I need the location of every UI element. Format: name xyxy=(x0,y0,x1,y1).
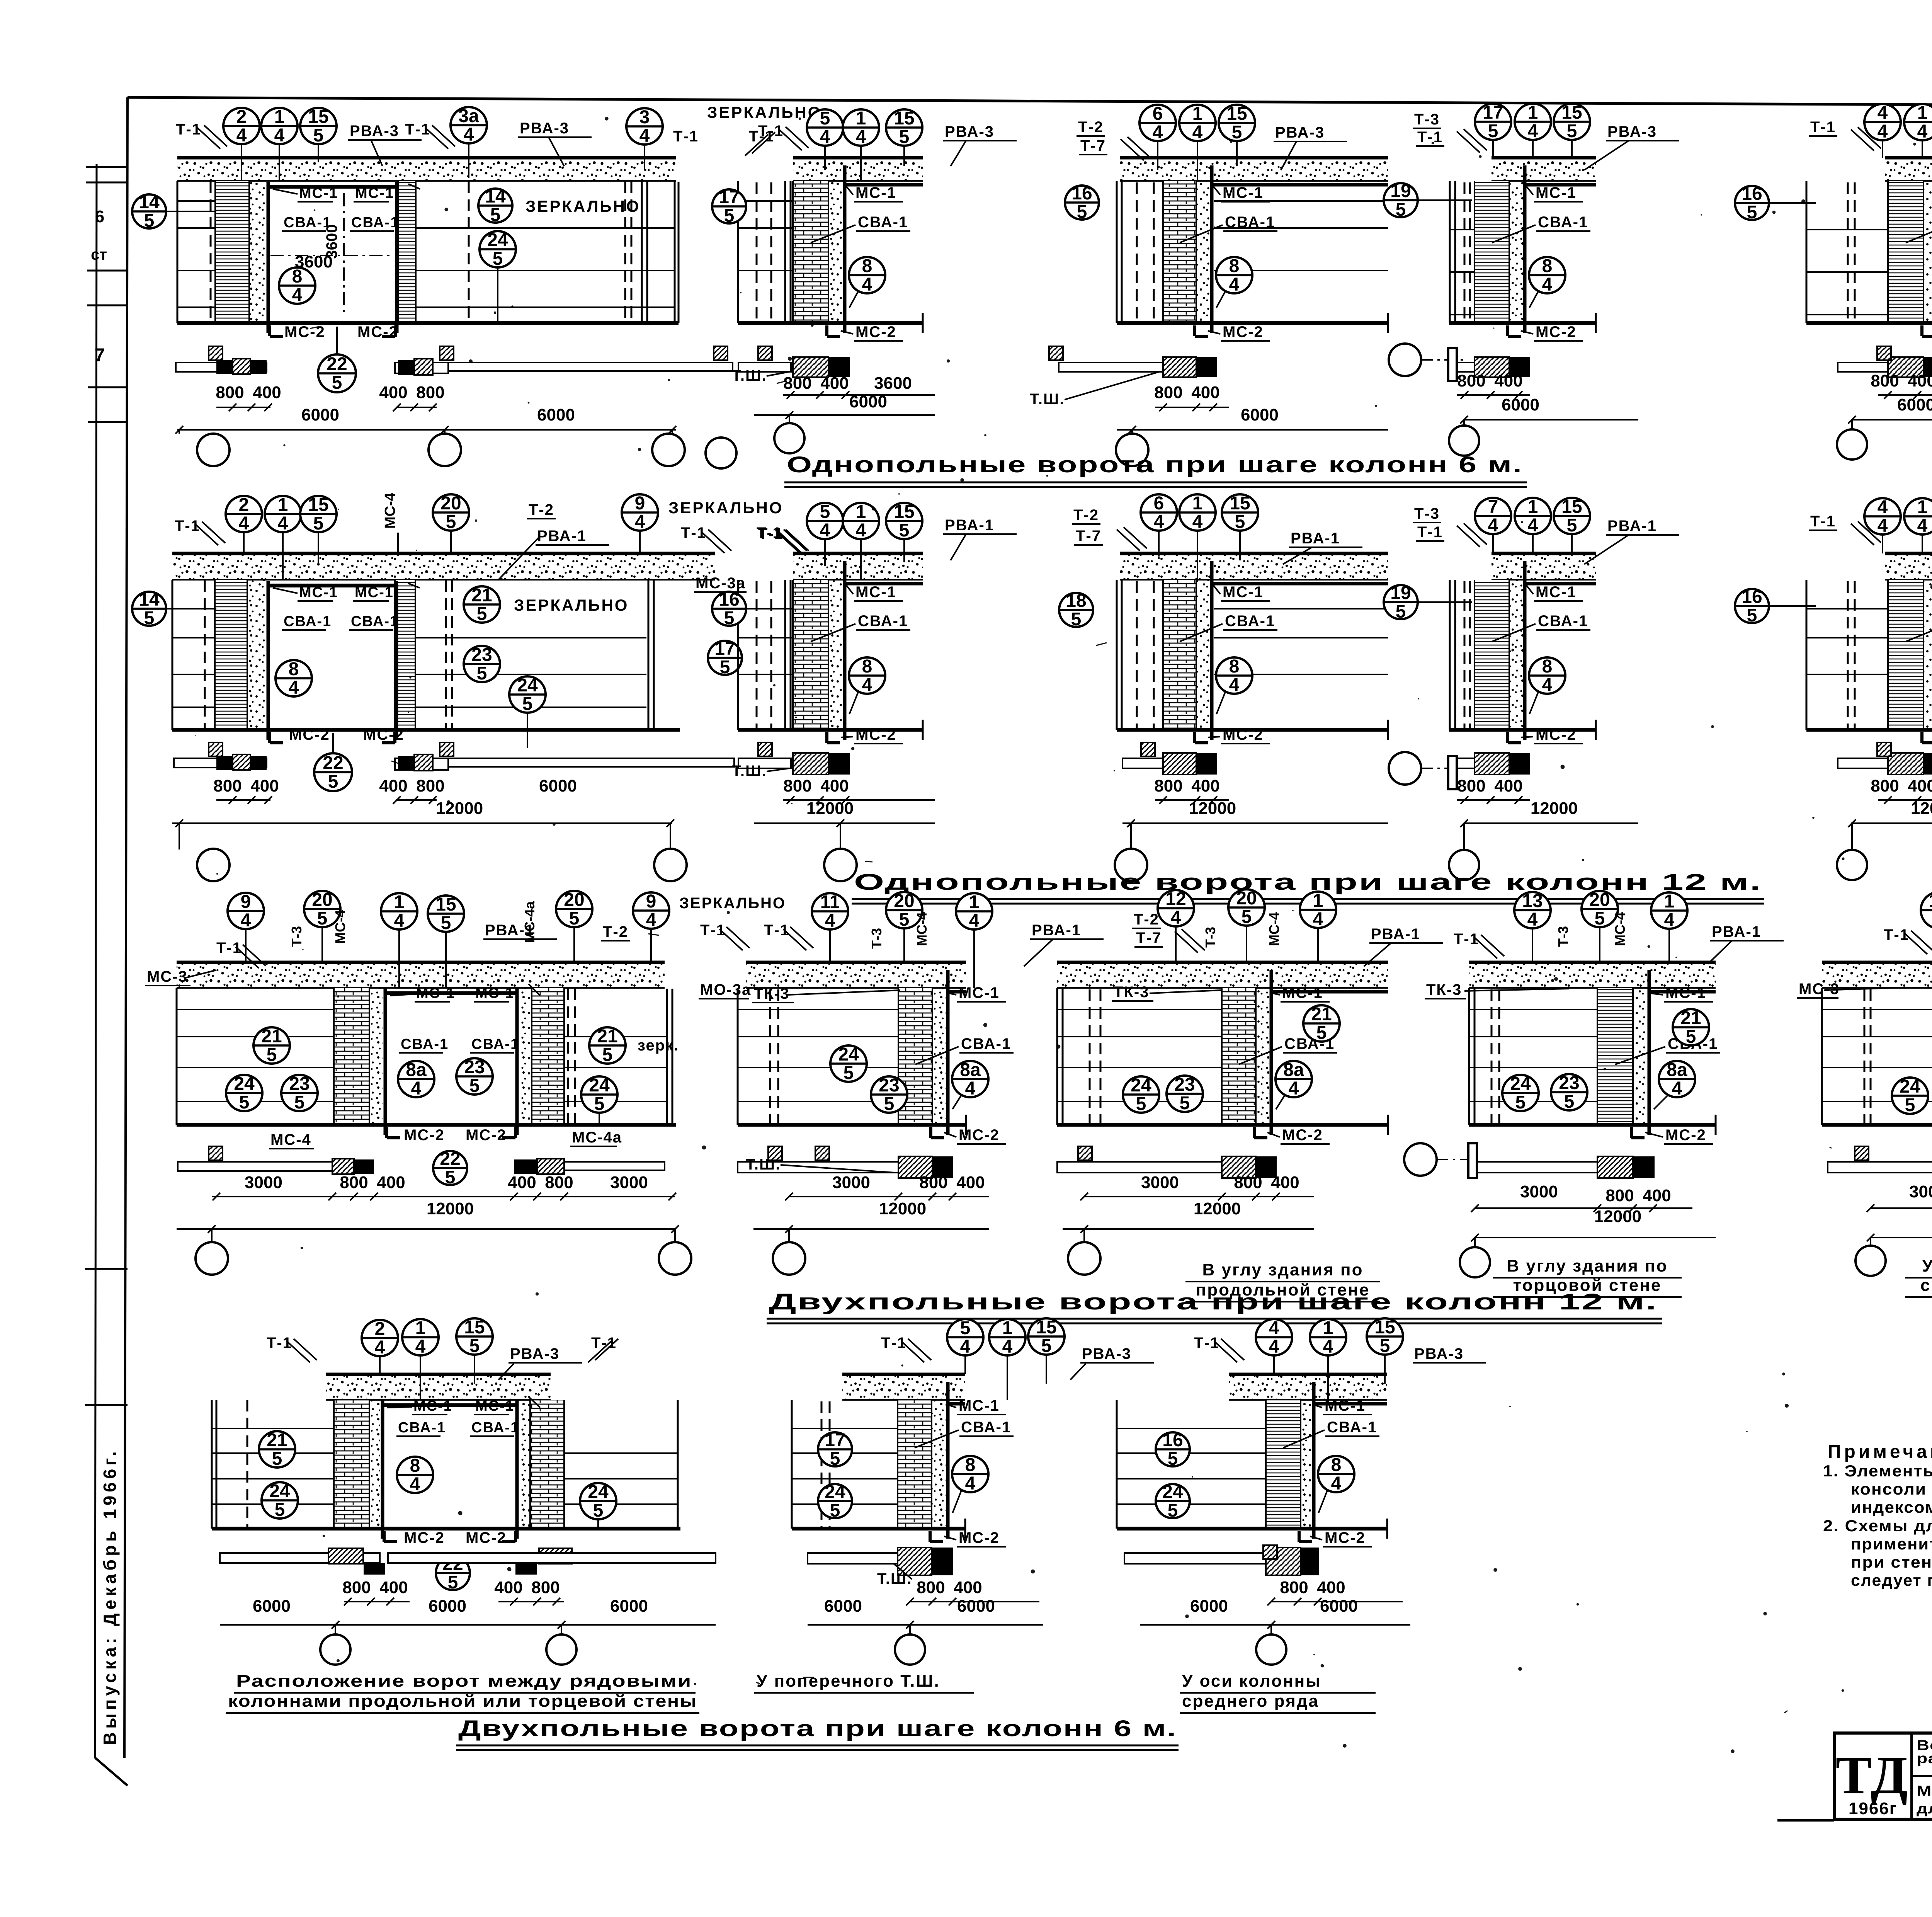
svg-text:6000: 6000 xyxy=(849,392,887,411)
callout circle 15/5 xyxy=(300,107,337,146)
R2D1 dashed joints xyxy=(204,581,206,730)
callout circle 5/4 xyxy=(947,1318,983,1357)
svg-text:6000: 6000 xyxy=(1897,395,1932,414)
stippled jamb strip xyxy=(247,580,266,730)
plan strip xyxy=(1124,1553,1266,1564)
hatched square (console mark) xyxy=(1877,346,1891,360)
axis circle xyxy=(774,423,804,453)
svg-text:5: 5 xyxy=(328,771,338,792)
svg-text:МС-2: МС-2 xyxy=(404,1529,445,1546)
callout circle 24/5 xyxy=(1156,1482,1190,1521)
plan strip xyxy=(1057,1162,1222,1173)
label Т.Ш. xyxy=(732,763,767,780)
svg-text:Т-7: Т-7 xyxy=(1080,137,1106,154)
jamb foot mark xyxy=(394,325,397,336)
svg-text:18: 18 xyxy=(1066,591,1086,611)
dimension line xyxy=(1851,822,1932,824)
wall bottom thick line xyxy=(172,728,680,732)
svg-text:6: 6 xyxy=(95,207,104,226)
hatched column strip xyxy=(793,580,828,730)
lintel over opening xyxy=(383,1403,517,1407)
svg-text:21: 21 xyxy=(471,585,492,606)
hatched column strip xyxy=(1163,181,1196,323)
callout circle 23/5 xyxy=(1167,1074,1203,1113)
svg-text:4: 4 xyxy=(965,1078,976,1099)
jamb foot mark xyxy=(268,325,271,336)
svg-text:5: 5 xyxy=(1235,512,1245,532)
svg-text:7: 7 xyxy=(95,345,105,366)
T-label leader bracket xyxy=(425,128,448,149)
svg-text:400: 400 xyxy=(1908,776,1932,795)
svg-text:МС-2: МС-2 xyxy=(357,323,398,340)
leader line xyxy=(379,1356,381,1374)
svg-text:12000: 12000 xyxy=(427,1199,474,1218)
plan strip xyxy=(738,363,791,372)
leader CBA-1 xyxy=(1492,624,1536,642)
svg-text:МО-3а: МО-3а xyxy=(700,981,751,998)
lintel line MC-1 xyxy=(948,1402,965,1406)
T-label leader bracket xyxy=(195,524,218,545)
callout circle 6/4 xyxy=(1141,493,1177,532)
wall bottom thick line xyxy=(1117,728,1388,732)
svg-text:РВА-3: РВА-3 xyxy=(1082,1345,1131,1362)
svg-text:консоли Т.К. приняты по сер: консоли Т.К. приняты по серии СТ-02-31 в… xyxy=(1851,1480,1932,1498)
wall course lines xyxy=(172,608,215,609)
svg-text:3а: 3а xyxy=(458,106,479,126)
leader MC-2 xyxy=(1521,737,1533,737)
svg-text:5: 5 xyxy=(1747,605,1757,626)
leader 8/4 xyxy=(849,691,859,714)
svg-text:ТК-3: ТК-3 xyxy=(1114,984,1149,1001)
svg-text:12000: 12000 xyxy=(436,799,483,818)
svg-text:4: 4 xyxy=(278,513,288,534)
door jamb (thick line) xyxy=(515,989,519,1135)
svg-text:Т-2: Т-2 xyxy=(603,923,628,940)
stippled jamb strip xyxy=(932,1400,946,1529)
leader line xyxy=(1492,534,1494,553)
svg-text:6000: 6000 xyxy=(301,405,339,424)
svg-text:2: 2 xyxy=(236,107,247,127)
axis circle xyxy=(197,434,230,466)
title block TD cell divider xyxy=(1910,1733,1913,1819)
leader line xyxy=(824,539,826,566)
stippled lintel band xyxy=(842,1374,965,1400)
svg-text:400: 400 xyxy=(494,1578,522,1597)
svg-text:4: 4 xyxy=(274,125,285,146)
wall edge verticals xyxy=(1116,580,1118,730)
svg-text:400: 400 xyxy=(1908,371,1932,390)
label Т-1 xyxy=(175,518,200,535)
door jamb (thick line) xyxy=(1312,1382,1316,1539)
leader MC-2 xyxy=(1521,331,1533,334)
svg-text:8а: 8а xyxy=(406,1060,427,1080)
callout circle 1/4 xyxy=(843,108,879,147)
axis drop xyxy=(1130,823,1132,849)
callout circle 8/4 xyxy=(1216,656,1252,695)
leader MC-2 xyxy=(841,737,853,737)
svg-text:14: 14 xyxy=(139,589,160,610)
label Т-2 xyxy=(1072,507,1100,524)
label МС-1 xyxy=(1534,184,1583,202)
svg-text:1: 1 xyxy=(856,502,866,522)
hatched column strip xyxy=(793,181,828,323)
dimension line xyxy=(1871,1237,1932,1238)
callout circle 8/4 xyxy=(849,656,885,695)
wall bottom thick line xyxy=(177,321,679,325)
svg-text:Т-3: Т-3 xyxy=(1202,927,1218,948)
svg-text:24: 24 xyxy=(825,1482,845,1502)
svg-text:23: 23 xyxy=(1174,1074,1195,1095)
svg-text:4: 4 xyxy=(825,911,835,931)
hatched square (console mark) xyxy=(1263,1545,1277,1559)
callout circle 24/5 xyxy=(509,675,546,714)
svg-text:9: 9 xyxy=(241,892,251,912)
axis circle xyxy=(706,438,736,468)
leader 8/4 xyxy=(849,291,859,308)
svg-text:5: 5 xyxy=(477,663,487,684)
svg-text:6000: 6000 xyxy=(429,1597,466,1616)
svg-text:15: 15 xyxy=(1230,493,1250,514)
svg-text:800: 800 xyxy=(1234,1173,1262,1192)
axis circle xyxy=(429,434,461,466)
svg-text:15: 15 xyxy=(1374,1317,1395,1338)
wall course lines xyxy=(1469,1009,1597,1010)
leader line xyxy=(903,146,905,166)
label РВА-3 xyxy=(943,123,1017,141)
svg-text:5: 5 xyxy=(441,913,451,933)
callout circle 15/5 xyxy=(1028,1317,1065,1356)
svg-text:ЗЕРКАЛЬНО: ЗЕРКАЛЬНО xyxy=(679,895,786,912)
leader xyxy=(597,1519,599,1527)
svg-text:5: 5 xyxy=(1232,122,1242,143)
svg-text:1: 1 xyxy=(1917,497,1928,518)
plan black block xyxy=(1923,357,1932,377)
callout circle 1/4 xyxy=(1300,890,1336,930)
svg-text:1: 1 xyxy=(415,1318,426,1338)
door jamb (thick line) xyxy=(395,182,399,333)
callout circle 16/5 xyxy=(1735,184,1769,223)
label СВА-1 xyxy=(856,214,910,231)
callout circle 16/5 xyxy=(1156,1430,1190,1469)
svg-text:4: 4 xyxy=(1542,675,1553,695)
svg-text:ЗЕРКАЛЬНО: ЗЕРКАЛЬНО xyxy=(526,197,640,215)
svg-text:МС-4: МС-4 xyxy=(332,910,348,944)
svg-text:МС-1: МС-1 xyxy=(1536,584,1577,601)
svg-text:МС-4а: МС-4а xyxy=(572,1129,622,1146)
label Т-1 xyxy=(216,940,242,957)
callout circle 8а/4 xyxy=(1276,1060,1312,1099)
label МС-1 xyxy=(298,185,338,202)
stippled lintel band xyxy=(177,158,676,181)
axis circle xyxy=(197,849,230,881)
svg-text:МС-2: МС-2 xyxy=(1223,323,1264,340)
axis circle xyxy=(652,434,685,466)
svg-text:МС-3: МС-3 xyxy=(147,968,188,985)
leader mc1 left xyxy=(387,1407,412,1408)
svg-text:ст: ст xyxy=(91,246,107,263)
label МС-2 xyxy=(1534,726,1583,744)
wall bottom thick line xyxy=(1057,1123,1388,1127)
svg-text:МС-2: МС-2 xyxy=(1223,726,1264,743)
svg-text:5: 5 xyxy=(593,1500,604,1521)
callout circle 22/5 xyxy=(314,753,352,792)
svg-text:15: 15 xyxy=(308,107,328,127)
wall course lines xyxy=(416,227,675,229)
svg-text:19: 19 xyxy=(1390,181,1411,201)
label СВА-1 xyxy=(959,1419,1014,1436)
label МС-3 xyxy=(1797,981,1840,998)
lintel over opening xyxy=(268,185,397,189)
dimension line xyxy=(172,822,672,824)
callout circle 24/5 xyxy=(1123,1075,1159,1114)
left edge vertical xyxy=(177,181,179,323)
callout circle 8а/4 xyxy=(398,1060,434,1099)
callout circle 8/4 xyxy=(1529,256,1565,295)
svg-text:при стенах меньшей толщины: при стенах меньшей толщины. Вместо панел… xyxy=(1851,1553,1932,1571)
svg-text:800: 800 xyxy=(1154,776,1182,795)
svg-text:МС-1: МС-1 xyxy=(959,984,1000,1001)
svg-text:5: 5 xyxy=(1567,515,1577,536)
leader 22/5 xyxy=(332,733,334,753)
axis circle xyxy=(320,1634,350,1665)
svg-text:5: 5 xyxy=(1564,1091,1575,1112)
svg-text:8: 8 xyxy=(862,656,872,677)
stippled lintel band xyxy=(1120,158,1388,181)
leader MC-1 xyxy=(1526,585,1533,594)
label Т-2 xyxy=(601,923,630,941)
stippled jamb strip xyxy=(828,181,843,323)
label МС-1 xyxy=(298,584,338,601)
svg-text:МС-4: МС-4 xyxy=(270,1131,311,1148)
svg-text:ЗЕРКАЛЬНО: ЗЕРКАЛЬНО xyxy=(668,499,783,517)
axis circle xyxy=(1837,429,1867,460)
callout circle 3а/4 xyxy=(451,106,487,145)
jamb foot mark xyxy=(1506,325,1509,336)
T.Sh leader xyxy=(767,768,789,771)
hatched column strip xyxy=(898,1400,932,1529)
axis circle xyxy=(1460,1247,1490,1277)
callout circle 5/4 xyxy=(807,502,843,541)
hatched column strip xyxy=(334,988,369,1125)
svg-text:МС-1: МС-1 xyxy=(475,985,514,1001)
leader CBA-1 xyxy=(1492,225,1536,243)
callout circle 8/4 xyxy=(276,659,312,698)
svg-text:800: 800 xyxy=(216,383,244,402)
label МС-2 xyxy=(854,726,903,744)
wall edge verticals xyxy=(1468,988,1470,1125)
stippled jamb strip xyxy=(519,988,532,1125)
svg-text:800: 800 xyxy=(545,1173,573,1192)
wall course lines xyxy=(177,1009,334,1010)
leader mc1 right xyxy=(529,984,540,996)
wall bottom thick line xyxy=(1449,728,1596,732)
leader MC-1 xyxy=(949,1405,956,1408)
R3D1 right edge verticals xyxy=(666,989,668,1125)
svg-text:У оси колонны: У оси колонны xyxy=(1182,1672,1321,1691)
callout circle 2/4 xyxy=(223,107,260,146)
svg-text:12000: 12000 xyxy=(806,799,854,818)
T-label leader bracket xyxy=(779,532,802,553)
svg-text:5: 5 xyxy=(1595,908,1605,929)
svg-text:22: 22 xyxy=(327,354,347,375)
svg-text:4: 4 xyxy=(1331,1473,1342,1494)
expansion joint dashed lines xyxy=(1847,581,1849,730)
dimension line xyxy=(220,1624,716,1626)
callout circle 15/5 xyxy=(1219,104,1255,143)
plan hatch block xyxy=(1222,1156,1256,1178)
callout circle 24/5 xyxy=(262,1481,298,1520)
callout circle 22/5 xyxy=(436,1554,470,1593)
callout circle 20/5 xyxy=(1582,890,1618,929)
svg-text:СВА-1: СВА-1 xyxy=(1327,1419,1377,1436)
svg-text:5: 5 xyxy=(272,1449,282,1469)
axis circle xyxy=(1449,850,1479,880)
svg-text:5: 5 xyxy=(602,1045,613,1065)
plan black block xyxy=(932,1156,953,1178)
svg-text:4: 4 xyxy=(239,513,249,534)
leader MC-1 xyxy=(1213,585,1220,594)
svg-text:24: 24 xyxy=(487,230,508,250)
callout circle 15/5 xyxy=(1367,1317,1403,1356)
svg-text:Т-1: Т-1 xyxy=(1810,513,1836,530)
lintel over opening xyxy=(385,991,517,995)
svg-text:5: 5 xyxy=(239,1092,250,1113)
axis circle xyxy=(1068,1242,1100,1275)
title block outer box xyxy=(1834,1733,1932,1819)
svg-text:СВА-1: СВА-1 xyxy=(471,1036,519,1052)
svg-text:21: 21 xyxy=(597,1026,617,1047)
svg-text:Т-1: Т-1 xyxy=(1810,119,1836,136)
svg-text:МС-4: МС-4 xyxy=(1612,912,1628,946)
leader xyxy=(498,537,539,580)
hatched column strip xyxy=(215,580,247,730)
svg-text:5: 5 xyxy=(1071,609,1082,630)
label Т-7 xyxy=(1134,930,1163,947)
door jamb (thick line) xyxy=(946,1382,950,1539)
door jamb (thick line) xyxy=(515,1401,519,1539)
wall course lines xyxy=(212,1428,334,1429)
label Т-1 xyxy=(267,1335,292,1352)
callout circle 8/4 xyxy=(952,1455,988,1494)
svg-text:16: 16 xyxy=(1162,1430,1183,1451)
svg-text:МС-2: МС-2 xyxy=(1536,323,1577,340)
svg-text:СВА-1: СВА-1 xyxy=(1538,613,1588,630)
svg-text:МС-2: МС-2 xyxy=(855,726,896,743)
svg-text:индексом МС см. лист 7: индексом МС см. лист 7 настоящей серии. … xyxy=(1851,1498,1932,1516)
svg-text:МС-2: МС-2 xyxy=(1536,726,1577,743)
svg-text:24: 24 xyxy=(588,1482,609,1502)
svg-text:РВА-1: РВА-1 xyxy=(1291,530,1340,547)
svg-text:5: 5 xyxy=(960,1318,971,1338)
svg-text:400: 400 xyxy=(1271,1173,1299,1192)
plan hatch block xyxy=(1475,357,1509,377)
callout circle 1/4 xyxy=(956,892,992,931)
axis circle xyxy=(1116,434,1148,466)
plan hatch block xyxy=(793,753,828,775)
callout circle 23/5 xyxy=(281,1074,318,1113)
svg-text:РВА-3: РВА-3 xyxy=(350,123,399,140)
hatched column strip xyxy=(398,181,416,323)
svg-text:8: 8 xyxy=(1331,1455,1342,1475)
svg-text:400: 400 xyxy=(956,1173,985,1192)
callout circle 21/5 xyxy=(1673,1008,1709,1047)
T-label leader bracket xyxy=(197,128,220,149)
svg-text:среднего ряда: среднего ряда xyxy=(1182,1692,1319,1711)
hatched square (console mark) xyxy=(815,1146,829,1160)
wall bottom thick line xyxy=(1117,321,1388,325)
leader 8/4 xyxy=(1216,291,1226,308)
svg-text:6000: 6000 xyxy=(1320,1597,1358,1616)
axis drop xyxy=(1463,420,1465,426)
dimension line xyxy=(783,394,935,396)
label МО-3а xyxy=(699,981,751,999)
leader line xyxy=(1236,141,1238,166)
label МС-1 xyxy=(1221,184,1270,202)
svg-text:12000: 12000 xyxy=(1189,799,1236,818)
svg-text:4: 4 xyxy=(1192,512,1203,532)
svg-text:РВА-1: РВА-1 xyxy=(1371,926,1420,943)
svg-text:5: 5 xyxy=(830,1449,840,1469)
leader line xyxy=(245,929,247,962)
dimension line xyxy=(1475,1207,1692,1209)
svg-text:4: 4 xyxy=(464,124,474,145)
leader xyxy=(1281,141,1296,170)
svg-text:МС-1: МС-1 xyxy=(959,1397,1000,1414)
svg-text:РВА-3: РВА-3 xyxy=(1275,124,1325,141)
callout circle 22/5 xyxy=(433,1149,467,1188)
hatched square (console mark) xyxy=(209,742,223,756)
hatched square (console mark) xyxy=(1877,742,1891,756)
svg-text:4: 4 xyxy=(241,910,251,931)
svg-text:5: 5 xyxy=(294,1092,305,1113)
svg-text:400: 400 xyxy=(377,1173,405,1192)
left margin tick marks xyxy=(86,166,128,168)
callout circle 21/5 xyxy=(589,1026,626,1065)
svg-text:следует применить кирпичную: следует применить кирпичную кладку. xyxy=(1851,1571,1932,1589)
stippled lintel band xyxy=(1229,1374,1387,1400)
svg-text:ТК-3: ТК-3 xyxy=(1426,981,1462,998)
svg-text:5: 5 xyxy=(446,512,456,532)
leader mc1 left xyxy=(273,189,298,194)
label РВА-1 xyxy=(1710,923,1784,941)
callout circle 3/4 xyxy=(626,107,663,146)
svg-text:4: 4 xyxy=(1878,121,1888,142)
svg-text:СВА-1: СВА-1 xyxy=(471,1420,519,1436)
stippled jamb strip xyxy=(369,988,383,1125)
svg-text:6000: 6000 xyxy=(957,1597,995,1616)
svg-text:МС-1: МС-1 xyxy=(1536,184,1577,201)
svg-text:СВА-1: СВА-1 xyxy=(351,215,399,231)
svg-text:6000: 6000 xyxy=(824,1597,862,1616)
svg-text:4: 4 xyxy=(1229,675,1240,695)
leader xyxy=(1824,988,1893,990)
left edge vertical xyxy=(176,988,178,1125)
T.Sh leader xyxy=(781,1165,895,1173)
svg-text:5: 5 xyxy=(1567,121,1577,141)
svg-text:5: 5 xyxy=(317,908,328,929)
svg-text:5: 5 xyxy=(493,249,503,269)
wall edge verticals xyxy=(1056,988,1058,1125)
svg-text:МС-1: МС-1 xyxy=(416,985,455,1001)
svg-text:20: 20 xyxy=(440,493,461,514)
label МС-2 xyxy=(1534,323,1583,341)
plan strip xyxy=(1838,758,1888,768)
leader line xyxy=(1922,140,1923,158)
callout circle 15/5 xyxy=(428,894,464,933)
stippled jamb strip xyxy=(1196,580,1210,730)
axis circle xyxy=(546,1634,577,1665)
leader line xyxy=(903,928,905,962)
